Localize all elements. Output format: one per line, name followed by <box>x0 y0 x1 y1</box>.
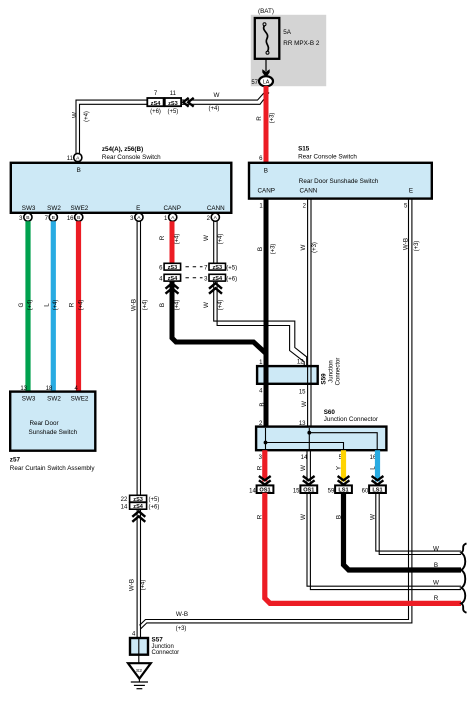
wire W from zS4 jog to S59 pin 12 (double) <box>214 281 307 366</box>
inline connector zS4 pin 7 <box>147 91 163 115</box>
svg-text:60: 60 <box>362 489 369 495</box>
label W (+4) top horizontal <box>209 92 220 112</box>
svg-text:14: 14 <box>121 504 128 510</box>
svg-text:S57: S57 <box>152 637 164 644</box>
label W <box>300 465 307 471</box>
svg-text:zS3: zS3 <box>168 101 178 107</box>
wire W-B from E pin 3A down to S57 (double line) <box>137 221 140 655</box>
svg-text:B: B <box>259 402 266 406</box>
svg-text:(+5): (+5) <box>226 265 237 271</box>
label S59 Junction Connector (rotated) <box>320 358 341 386</box>
chevron down above LS1 59 <box>338 476 350 485</box>
svg-text:(+4): (+4) <box>175 300 181 311</box>
wire Y S60 pin 5 to LS1 <box>341 450 346 481</box>
S60 bottom pin numbers <box>259 455 377 461</box>
svg-text:SWE2: SWE2 <box>71 396 89 403</box>
pin 16 B <box>67 213 83 222</box>
label W-B (+3) <box>402 238 420 251</box>
svg-text:S2: S2 <box>136 668 142 674</box>
svg-text:Connector: Connector <box>152 650 180 656</box>
label W-B (+4) lower <box>129 579 147 591</box>
junction connector S57 <box>130 637 179 657</box>
label R (+3) <box>256 113 276 124</box>
svg-text:zS3: zS3 <box>168 265 178 271</box>
svg-text:(+4): (+4) <box>28 300 34 311</box>
svg-text:z54(A), z56(B): z54(A), z56(B) <box>102 146 143 153</box>
svg-text:B: B <box>264 167 268 174</box>
fuse box background <box>251 15 326 86</box>
svg-text:(+4): (+4) <box>53 300 59 311</box>
pin 1 A <box>164 213 177 222</box>
label z57 Rear Curtain Switch Assembly <box>10 457 96 473</box>
wire G SW3 <box>25 221 30 391</box>
label R <box>257 465 264 470</box>
label L (+4) <box>44 300 60 311</box>
wire W below LS1 60 to right edge (double) <box>376 493 461 555</box>
label R (+4) <box>69 300 85 311</box>
svg-text:(+3): (+3) <box>270 113 276 124</box>
label W below OS1 <box>300 514 307 520</box>
svg-text:(+4): (+4) <box>175 234 181 245</box>
label B (+4) <box>159 300 181 311</box>
label B below LS1 <box>335 515 342 519</box>
wire L S60 pin 16 to LS1 <box>375 450 380 481</box>
svg-text:(+3): (+3) <box>414 241 420 252</box>
svg-text:B: B <box>77 215 80 221</box>
label W below LS1 60 <box>369 514 376 520</box>
wire W CANN z54 to inline connector (double) <box>214 221 217 263</box>
inline connector pair 7 zS3 (+5) / 3 zS4 (+6) (right) <box>204 263 237 282</box>
svg-text:W-B: W-B <box>176 611 188 618</box>
label L <box>369 466 376 470</box>
svg-text:11: 11 <box>170 91 177 97</box>
svg-text:W: W <box>214 92 220 99</box>
fuse 5A RR MPX-B 2 <box>255 18 320 59</box>
rear console switch z54 box <box>11 146 232 213</box>
chevron up below zS4 <box>132 511 145 522</box>
svg-text:R: R <box>257 465 264 470</box>
svg-text:B: B <box>77 167 81 174</box>
S60 internal wiring <box>264 428 378 449</box>
wire W S59 pin 15 to S60 pin 13 (double) <box>308 384 311 427</box>
svg-text:W: W <box>203 235 210 241</box>
junction connector S60 <box>256 409 386 450</box>
svg-text:14: 14 <box>249 489 256 495</box>
svg-text:B: B <box>159 303 166 307</box>
svg-text:Junction Connector: Junction Connector <box>324 416 378 423</box>
inline connector 22 zS3 (+5) / 14 zS4 (+6) <box>121 495 160 510</box>
svg-text:W: W <box>369 514 376 520</box>
svg-text:CANP: CANP <box>258 188 276 195</box>
label (BAT) <box>258 8 274 15</box>
rear door sunshade switch S15 box <box>249 146 432 199</box>
label B (+3) <box>257 244 277 255</box>
label W (+4) left vertical <box>72 111 91 122</box>
svg-text:(+4): (+4) <box>79 300 85 311</box>
svg-text:L: L <box>44 303 51 307</box>
svg-text:12: 12 <box>297 360 304 366</box>
wire W below OS1 15 to right edge (double) <box>307 493 461 590</box>
wire R S60 pin 3 to OS1 <box>262 450 267 481</box>
wire W-B from S15 E pin 5 down and left to S57 (double) <box>140 198 412 628</box>
svg-text:Rear Console Switch: Rear Console Switch <box>298 154 357 161</box>
label W (+3) <box>300 242 318 253</box>
svg-text:Rear Curtain Switch Assembly: Rear Curtain Switch Assembly <box>10 465 96 472</box>
svg-text:CANP: CANP <box>163 205 181 212</box>
svg-text:W-B: W-B <box>129 579 136 591</box>
svg-text:R: R <box>434 595 439 602</box>
svg-text:W: W <box>300 514 307 520</box>
connector LS1 60 <box>362 485 386 494</box>
connector OS1 14 <box>249 485 273 494</box>
label R below OS1 <box>257 514 264 519</box>
svg-text:Rear Door: Rear Door <box>30 420 59 427</box>
svg-text:(+6): (+6) <box>150 109 161 115</box>
svg-text:W: W <box>72 112 79 118</box>
wire R CANP z54 to inline connector <box>170 221 175 263</box>
label W-B (+3) horizontal wire <box>176 611 188 632</box>
svg-text:B: B <box>257 247 264 251</box>
svg-text:R: R <box>159 235 166 240</box>
chevron up below right pair <box>209 283 222 294</box>
wire R SWE2 <box>76 221 81 391</box>
svg-text:Rear Console Switch: Rear Console Switch <box>102 154 161 161</box>
svg-text:Rear Door Sunshade Switch: Rear Door Sunshade Switch <box>299 178 379 185</box>
svg-text:(+4): (+4) <box>143 300 149 311</box>
svg-text:22: 22 <box>121 497 128 503</box>
svg-text:R: R <box>256 116 263 121</box>
label Y <box>335 465 342 470</box>
svg-text:zS4: zS4 <box>168 276 179 282</box>
svg-text:R: R <box>69 302 76 307</box>
chevron down above OS1 15 <box>303 476 315 485</box>
pin 11 A circle <box>67 153 82 173</box>
svg-text:RR MPX-B 2: RR MPX-B 2 <box>283 40 320 47</box>
rear door sunshade switch z57 box <box>10 386 95 451</box>
svg-text:(+3): (+3) <box>176 626 187 632</box>
svg-text:W-B: W-B <box>402 238 409 250</box>
wire from S57 to ground triangle <box>138 655 140 664</box>
svg-text:W-B: W-B <box>131 299 138 311</box>
svg-text:57: 57 <box>251 80 258 86</box>
label W-B (+4) upper <box>131 299 149 311</box>
svg-text:LS1: LS1 <box>372 488 382 494</box>
wire W from LA to inline connector and pin 11 (double line) <box>76 90 269 155</box>
svg-text:LS1: LS1 <box>338 488 348 494</box>
ground triangle S2 <box>128 663 151 678</box>
svg-text:z57: z57 <box>10 457 21 464</box>
svg-text:zS4: zS4 <box>212 276 223 282</box>
wire L SW2 <box>51 221 56 391</box>
dashes between connector pairs <box>186 267 203 278</box>
svg-text:CANN: CANN <box>207 205 225 212</box>
svg-text:(+6): (+6) <box>226 276 237 282</box>
svg-text:(+4): (+4) <box>218 234 224 245</box>
inline connector pair 6 zS3 / 4 zS4 (left) <box>159 263 180 282</box>
svg-text:S15: S15 <box>298 146 310 153</box>
svg-text:SW3: SW3 <box>22 205 36 212</box>
wire W CANN S15 to S59 pin 12 (double) <box>308 198 311 366</box>
svg-text:W: W <box>433 580 439 587</box>
svg-text:W: W <box>433 546 439 553</box>
pin 2 A <box>207 213 220 222</box>
svg-text:zS4: zS4 <box>133 504 144 510</box>
junction connector S59 <box>257 360 318 396</box>
svg-text:(BAT): (BAT) <box>258 8 274 15</box>
svg-text:SWE2: SWE2 <box>70 205 88 212</box>
S15 bottom pin numbers <box>259 204 408 210</box>
svg-text:W: W <box>300 465 307 471</box>
labels W B W R at right edge <box>433 546 439 603</box>
svg-text:zS3: zS3 <box>212 265 222 271</box>
label B <box>259 402 266 406</box>
pin 3 A <box>130 213 143 222</box>
svg-text:W: W <box>300 244 307 250</box>
svg-text:15: 15 <box>293 489 300 495</box>
svg-text:Connector: Connector <box>335 358 341 386</box>
svg-text:SW2: SW2 <box>47 205 61 212</box>
chevron down above OS1 14 <box>259 476 271 485</box>
svg-text:(+3): (+3) <box>271 244 277 255</box>
svg-text:LA: LA <box>263 80 270 86</box>
svg-text:CANN: CANN <box>300 188 318 195</box>
chevron up below left pair <box>166 283 179 294</box>
svg-text:16: 16 <box>67 216 74 222</box>
svg-text:SW2: SW2 <box>47 396 61 403</box>
svg-text:E: E <box>136 205 140 212</box>
wire B below LS1 59 to right edge <box>344 493 462 570</box>
pin 7 B <box>45 213 58 222</box>
label W (+4) <box>203 234 224 245</box>
connector LS1 59 <box>328 485 352 494</box>
svg-text:B: B <box>335 515 342 519</box>
svg-text:OS1: OS1 <box>303 488 314 494</box>
svg-text:E: E <box>409 188 413 195</box>
label W (+4) below right pair <box>203 300 224 311</box>
svg-text:5A: 5A <box>283 29 292 36</box>
svg-text:(+3): (+3) <box>312 242 318 253</box>
label R (+4) <box>159 234 181 245</box>
arrow from fuse to connector <box>262 59 269 78</box>
ground symbol <box>131 679 148 689</box>
svg-text:(+5): (+5) <box>149 497 160 503</box>
svg-text:zS4: zS4 <box>151 101 162 107</box>
pin 4 S57 <box>132 632 136 638</box>
chevron left-pointing at inline connector <box>183 98 194 107</box>
wire R from LA to S15 pin 6 <box>264 86 269 162</box>
svg-text:S60: S60 <box>324 409 336 416</box>
connector 57 LA <box>251 76 273 86</box>
svg-text:SW3: SW3 <box>22 396 36 403</box>
svg-text:Junction: Junction <box>328 360 334 382</box>
wire B from zS4 elbow to S59 pin 1 <box>172 281 266 353</box>
pin 3 B <box>19 213 32 222</box>
svg-text:11: 11 <box>67 156 74 162</box>
svg-text:W: W <box>203 302 210 308</box>
wire B S59 pin 4 to S60 pin 2 <box>264 384 269 427</box>
squiggle wire ends at right edge <box>461 543 466 612</box>
z54 bottom pin labels <box>22 205 225 212</box>
svg-text:(+6): (+6) <box>149 504 160 510</box>
svg-text:G: G <box>18 302 25 307</box>
svg-text:W: W <box>301 401 308 407</box>
inline connector zS3 pin 11 <box>165 91 181 115</box>
connector OS1 15 <box>293 485 317 494</box>
svg-text:15: 15 <box>299 390 306 396</box>
svg-text:(+4): (+4) <box>84 111 90 122</box>
wire R below OS1 14 to right edge <box>265 493 461 604</box>
svg-text:(+4): (+4) <box>218 300 224 311</box>
wire W S60 pin 14 to OS1 (double) <box>307 450 310 481</box>
chevron down above LS1 60 <box>372 476 384 485</box>
label W <box>301 401 308 407</box>
svg-text:B: B <box>26 215 29 221</box>
svg-text:59: 59 <box>328 489 335 495</box>
svg-text:B: B <box>434 562 438 569</box>
svg-text:S59: S59 <box>320 373 327 385</box>
svg-text:OS1: OS1 <box>259 488 270 494</box>
svg-text:(+4): (+4) <box>209 106 220 112</box>
svg-text:B: B <box>52 215 55 221</box>
wire B CANP S15 to S59 pin 1 <box>264 198 269 366</box>
label G (+4) <box>18 300 34 311</box>
svg-text:(+4): (+4) <box>140 580 146 591</box>
svg-text:(+5): (+5) <box>167 109 178 115</box>
svg-text:R: R <box>257 514 264 519</box>
svg-text:L: L <box>369 466 376 470</box>
svg-text:Sunshade Switch: Sunshade Switch <box>29 429 78 436</box>
